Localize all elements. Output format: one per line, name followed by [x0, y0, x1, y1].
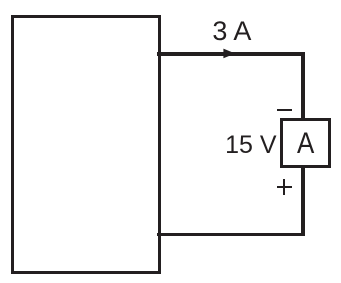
- polarity plus vertical: [283, 179, 285, 195]
- label 3 A: [212, 16, 251, 47]
- wire bottom: [157, 233, 305, 236]
- source box: [11, 15, 161, 275]
- wire top: [157, 52, 305, 55]
- polarity minus: [277, 109, 292, 111]
- wire right upper: [301, 52, 305, 120]
- ammeter label A: [297, 127, 314, 161]
- current arrow: [222, 47, 237, 60]
- wire right lower: [301, 165, 305, 236]
- label 15 V: [225, 131, 276, 160]
- ammeter U1: [280, 118, 331, 168]
- polarity plus horizontal: [277, 186, 292, 188]
